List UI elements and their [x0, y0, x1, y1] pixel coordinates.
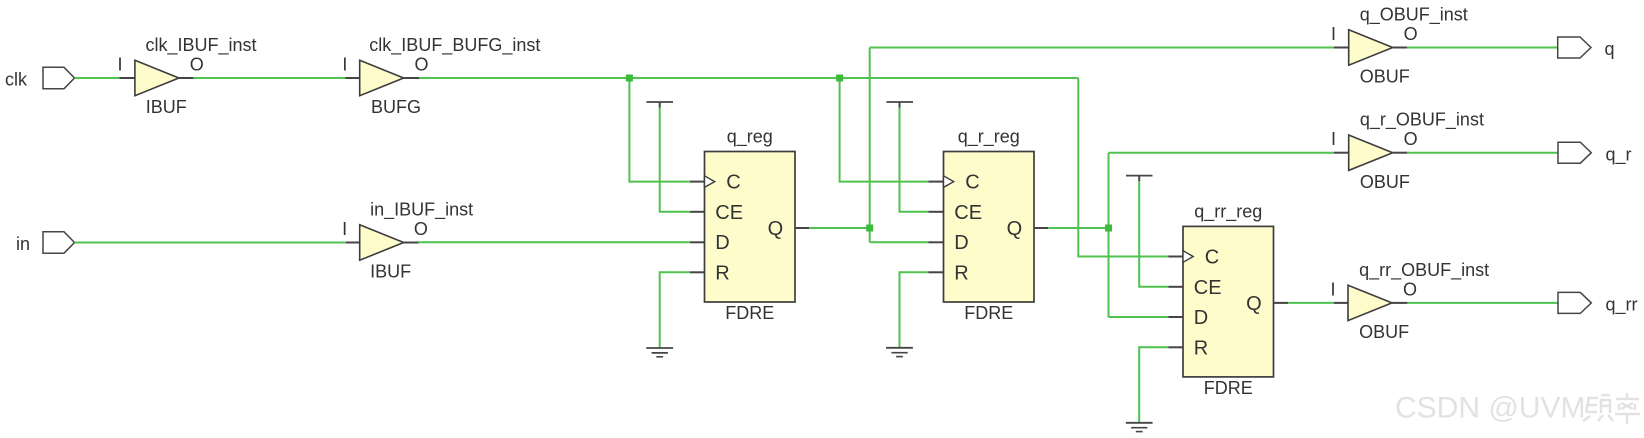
- wire clock drop to q_rr_reg C: [1078, 78, 1168, 257]
- svg-text:R: R: [1194, 337, 1208, 359]
- buffer U3 in_IBUF_inst IBUF: [342, 200, 473, 282]
- svg-text:OBUF: OBUF: [1360, 172, 1410, 192]
- flip-flop q_r_reg FDRE: [944, 127, 1035, 324]
- wire q_reg C pin stub: [690, 181, 705, 183]
- wire q_OBUF O pin stub: [1393, 47, 1408, 49]
- wire vcc to q_r_reg CE: [900, 108, 929, 212]
- wire q_r net to OBUF: [1109, 152, 1335, 154]
- wire q_reg Q to junction: [809, 227, 870, 229]
- wire q_rr_OBUF to port q_rr: [1407, 302, 1558, 304]
- wire q_rr_reg R pin stub: [1169, 346, 1184, 348]
- svg-text:CSDN @UVM: CSDN @UVM: [1395, 392, 1585, 425]
- wire clk port to IBUF: [75, 77, 120, 79]
- ground below q_reg: [646, 348, 673, 357]
- junction clock at q_reg branch: [626, 75, 633, 82]
- port clk: [5, 67, 75, 89]
- flip-flop q_reg FDRE: [705, 127, 796, 324]
- svg-text:D: D: [954, 232, 968, 254]
- wire q_reg CE pin stub: [690, 211, 705, 213]
- wire clk_IBUF_BUFG net main horizontal: [419, 77, 1078, 79]
- wire IBUF I pin stub: [120, 77, 135, 79]
- wire q_reg R to ground: [660, 272, 690, 348]
- svg-text:I: I: [1331, 129, 1336, 149]
- wire in port to IBUF: [75, 242, 346, 244]
- svg-text:O: O: [1404, 129, 1418, 149]
- wire q_rr net to OBUF: [1288, 302, 1334, 304]
- junction clock at q_r_reg branch: [836, 75, 843, 82]
- svg-text:C: C: [1205, 247, 1219, 269]
- svg-text:q_reg: q_reg: [727, 127, 773, 148]
- wire q_rr_reg R to ground: [1139, 347, 1168, 422]
- buffer U1 clk_IBUF_inst IBUF: [117, 35, 256, 117]
- svg-text:I: I: [1330, 279, 1335, 299]
- svg-text:R: R: [954, 262, 968, 284]
- watermark glyph pin: [1583, 395, 1613, 421]
- wire q_r net vertical riser: [1108, 153, 1110, 317]
- wire in_IBUF O pin stub: [404, 242, 419, 244]
- svg-text:clk_IBUF_BUFG_inst: clk_IBUF_BUFG_inst: [369, 35, 540, 56]
- wire q net vertical riser: [869, 48, 871, 243]
- wire q_r net to q_rr_reg D: [1109, 316, 1169, 318]
- svg-text:OBUF: OBUF: [1360, 67, 1410, 87]
- wire q net top run to OBUF: [870, 47, 1334, 49]
- svg-text:CE: CE: [954, 202, 982, 224]
- svg-text:BUFG: BUFG: [371, 97, 421, 117]
- svg-text:q_r: q_r: [1606, 144, 1632, 165]
- wire q_r_OBUF to port q_r: [1407, 152, 1558, 154]
- svg-text:q_rr_reg: q_rr_reg: [1194, 202, 1262, 223]
- wire q_r_OBUF I pin stub: [1334, 152, 1349, 154]
- svg-text:in_IBUF_inst: in_IBUF_inst: [370, 200, 473, 221]
- wire q_r_reg Q pin stub: [1034, 227, 1048, 229]
- svg-text:q_r_OBUF_inst: q_r_OBUF_inst: [1360, 110, 1484, 131]
- svg-text:FDRE: FDRE: [725, 303, 774, 323]
- wire IBUF out to BUFG: [193, 77, 345, 79]
- svg-text:I: I: [1331, 24, 1336, 44]
- ground below q_r_reg: [886, 348, 913, 357]
- svg-text:q_rr: q_rr: [1606, 295, 1638, 316]
- svg-text:O: O: [414, 54, 428, 74]
- wire BUFG O pin stub: [404, 77, 420, 79]
- svg-text:R: R: [715, 262, 729, 284]
- junction q_r net: [1105, 225, 1112, 232]
- svg-text:D: D: [1194, 307, 1208, 329]
- wire q_r_reg R to ground: [900, 272, 929, 347]
- svg-text:q: q: [1605, 39, 1615, 59]
- svg-text:q_rr_OBUF_inst: q_rr_OBUF_inst: [1359, 260, 1489, 281]
- wire IBUF O pin stub: [179, 77, 193, 79]
- flip-flop q_rr_reg FDRE: [1183, 202, 1274, 399]
- port in: [16, 232, 75, 254]
- wire q_r_reg C pin stub: [929, 181, 944, 183]
- wire clock drop to q_r_reg C: [840, 78, 929, 182]
- port q_r: [1558, 142, 1632, 165]
- wire q_r_reg R pin stub: [929, 271, 944, 273]
- svg-text:FDRE: FDRE: [1204, 378, 1253, 398]
- svg-text:IBUF: IBUF: [370, 262, 411, 282]
- svg-text:O: O: [1404, 24, 1418, 44]
- watermark glyph lv: [1615, 393, 1640, 424]
- power vcc for q_reg CE: [646, 102, 673, 108]
- ground below q_rr_reg: [1126, 423, 1153, 432]
- svg-text:clk_IBUF_inst: clk_IBUF_inst: [146, 35, 257, 56]
- svg-text:I: I: [117, 54, 122, 74]
- svg-text:O: O: [190, 54, 204, 74]
- wire q_OBUF I pin stub: [1334, 47, 1349, 49]
- wire q_OBUF to port q: [1407, 47, 1558, 49]
- svg-text:Q: Q: [1007, 218, 1023, 240]
- wire vcc to q_reg CE: [660, 108, 690, 212]
- wire q_reg R pin stub: [690, 271, 705, 273]
- wire q_rr_OBUF I pin stub: [1334, 302, 1348, 304]
- svg-text:O: O: [1403, 279, 1417, 299]
- wire q_r_reg Q to junction: [1048, 227, 1108, 229]
- watermark CSDN @UVM: [1395, 392, 1585, 425]
- wire q_rr_reg CE pin stub: [1169, 286, 1184, 288]
- wire q_rr_reg D pin stub: [1169, 316, 1184, 318]
- svg-text:q_OBUF_inst: q_OBUF_inst: [1360, 4, 1468, 25]
- power vcc for q_r_reg CE: [886, 102, 913, 108]
- wire q_rr_reg Q pin stub: [1274, 302, 1289, 304]
- svg-text:in: in: [16, 234, 30, 254]
- svg-text:D: D: [715, 232, 729, 254]
- svg-text:O: O: [414, 219, 428, 239]
- svg-text:I: I: [342, 219, 347, 239]
- buffer U4 q_OBUF_inst OBUF: [1331, 4, 1468, 86]
- wire q_r_reg CE pin stub: [929, 211, 944, 213]
- svg-text:IBUF: IBUF: [146, 97, 187, 117]
- port q: [1558, 37, 1615, 59]
- wire q_r_reg D pin stub: [929, 241, 944, 243]
- port q_rr: [1558, 292, 1638, 315]
- wire q_rr_OBUF O pin stub: [1392, 302, 1407, 304]
- svg-text:Q: Q: [1246, 293, 1262, 315]
- wire clock drop to q_reg C: [629, 78, 690, 182]
- svg-text:C: C: [965, 172, 979, 194]
- svg-text:q_r_reg: q_r_reg: [958, 127, 1020, 148]
- wire BUFG I pin stub: [345, 77, 359, 79]
- svg-text:FDRE: FDRE: [964, 303, 1013, 323]
- buffer U2 clk_IBUF_BUFG_inst BUFG: [342, 35, 540, 117]
- wire in_IBUF I pin stub: [346, 242, 360, 244]
- wire q_r_OBUF O pin stub: [1393, 152, 1408, 154]
- svg-text:OBUF: OBUF: [1359, 322, 1409, 342]
- svg-text:I: I: [342, 54, 347, 74]
- wire q_reg Q pin stub: [795, 227, 809, 229]
- buffer U5 q_r_OBUF_inst OBUF: [1331, 110, 1484, 192]
- junction q net: [866, 225, 873, 232]
- svg-text:CE: CE: [715, 202, 743, 224]
- svg-text:Q: Q: [768, 218, 784, 240]
- svg-text:clk: clk: [5, 70, 28, 90]
- wire q net to q_r_reg D: [870, 241, 929, 243]
- svg-text:C: C: [726, 172, 740, 194]
- wire in_IBUF out to q_reg D: [419, 241, 691, 243]
- wire vcc to q_rr_reg CE: [1139, 181, 1168, 287]
- buffer U6 q_rr_OBUF_inst OBUF: [1330, 260, 1489, 342]
- svg-text:CE: CE: [1194, 277, 1222, 299]
- power vcc for q_rr_reg CE: [1126, 176, 1153, 181]
- wire q_rr_reg C pin stub: [1169, 256, 1184, 258]
- wire q_reg D pin stub: [690, 241, 705, 243]
